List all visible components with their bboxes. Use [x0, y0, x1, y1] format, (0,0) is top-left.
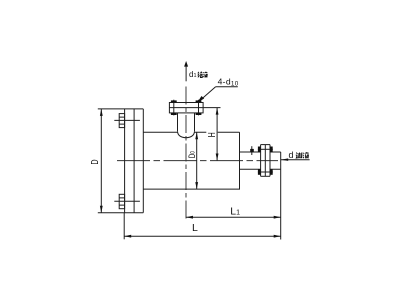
- label H: [207, 132, 218, 137]
- label d1 discharge text: [189, 70, 197, 79]
- dimension H line: [216, 108, 218, 161]
- svg-text:D: D: [90, 159, 101, 164]
- right flange bolt nub upper-right: [270, 147, 273, 153]
- top flange left bolt axis: [173, 100, 175, 116]
- vent plug stem: [251, 146, 253, 155]
- dimension L1 left arrowhead: [186, 216, 193, 219]
- dimension L1 right arrowhead: [274, 216, 281, 219]
- extension line left flange face: [123, 213, 125, 239]
- label L: [192, 222, 198, 234]
- right flange bolt nub upper-left: [258, 147, 261, 153]
- dimension L left arrowhead: [124, 235, 131, 238]
- top flange right bolt axis: [198, 100, 200, 116]
- dimension D bottom arrowhead: [100, 206, 103, 213]
- right flange bolt nub lower-left: [258, 169, 261, 175]
- nozzle neck right wall: [194, 113, 196, 131]
- dimension L1 line: [186, 216, 281, 218]
- left flange bottom edge with extension: [98, 212, 144, 214]
- top flange bolt head lower-left: [171, 113, 177, 115]
- top flange outline: [169, 103, 203, 113]
- right flange bolt nub lower-right: [270, 169, 273, 175]
- left upper bolt axis: [114, 119, 140, 121]
- left flange front face: [124, 109, 126, 213]
- nozzle neck bottom curve: [178, 131, 195, 137]
- label Do: [187, 151, 197, 158]
- right flange left face: [260, 145, 262, 177]
- casing cover edge: [142, 109, 144, 213]
- suction pipe lower line: [240, 168, 281, 170]
- top flange mating line: [169, 107, 203, 109]
- svg-text:H: H: [207, 132, 218, 137]
- nozzle neck left wall: [177, 113, 179, 131]
- dimension H top arrowhead: [216, 108, 219, 115]
- dimension D top arrowhead: [100, 109, 103, 116]
- svg-text:L: L: [192, 222, 198, 234]
- glyph 液 2: [303, 152, 309, 158]
- label L1: [230, 206, 240, 218]
- suction pipe upper line: [240, 151, 281, 153]
- dimension Do bottom arrowhead: [195, 182, 198, 189]
- left upper stud bolt: [119, 114, 124, 128]
- left lower bolt axis: [114, 200, 140, 202]
- top flange bolt head upper-right: [196, 100, 202, 102]
- dimension D line: [100, 109, 102, 213]
- right flange top edge: [261, 144, 270, 146]
- label d inlet: [289, 150, 294, 160]
- pump body outline: [143, 132, 239, 189]
- inlet leader arrowhead: [281, 158, 288, 161]
- wire: discharge arrow line: [185, 65, 187, 81]
- top flange bolt head upper-left: [171, 100, 177, 102]
- right flange right face: [269, 145, 271, 177]
- top flange bolt head lower-right: [196, 113, 202, 115]
- leader underline 4-d0: [216, 86, 238, 88]
- extension line right end: [280, 152, 282, 240]
- dimension Do top arrowhead: [195, 132, 198, 139]
- dimension L line: [124, 235, 281, 237]
- label D: [90, 159, 101, 164]
- label 4-d0 with underline: [218, 77, 239, 88]
- inlet leader line: [281, 159, 310, 161]
- right flange upper bolt axis: [258, 148, 273, 150]
- left lower stud bolt: [119, 194, 124, 208]
- arrowhead discharge up: [184, 61, 188, 67]
- dimension H extension line: [203, 107, 220, 109]
- dimension Do line: [196, 132, 198, 189]
- vertical nozzle centerline: [185, 87, 187, 219]
- left flange back face: [133, 109, 135, 213]
- right flange lower bolt axis: [258, 171, 273, 173]
- glyph 给: [198, 72, 203, 78]
- dimension H bottom arrowhead: [216, 154, 219, 161]
- glyph 液: [203, 72, 208, 78]
- dimension L right arrowhead: [274, 235, 281, 238]
- right flange mating line: [264, 145, 266, 177]
- horizontal centerline: [117, 160, 278, 162]
- left flange top edge with extension: [98, 108, 144, 110]
- leader line 4-d0: [200, 87, 216, 101]
- vent plug head: [250, 149, 254, 152]
- glyph 进: [296, 152, 303, 158]
- right flange bottom edge: [261, 175, 270, 177]
- svg-text:d: d: [289, 150, 294, 160]
- leader arrowhead 4-d0: [197, 96, 204, 103]
